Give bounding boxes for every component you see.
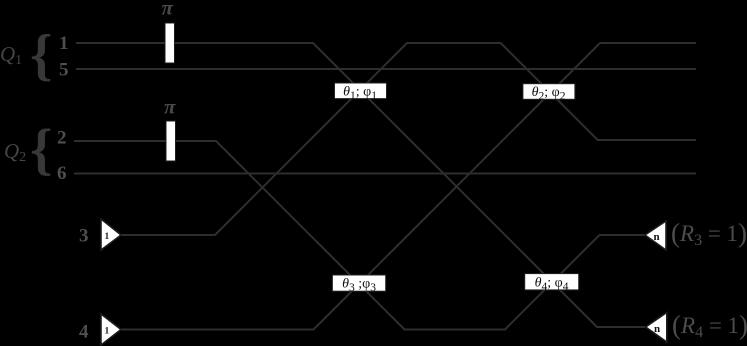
svg-text:{: { [30,24,52,87]
detector D4 (R4) [646,313,667,343]
svg-text:π: π [164,95,176,119]
svg-text:3: 3 [79,226,89,247]
photon source S4 on mode 4 [101,314,121,345]
beam splitter U4 (theta4; phi4) [525,274,579,293]
detector D3 (R3) [645,221,666,250]
wire mode 4 (source -> BS3 -> BS2 -> top right rail) [121,43,696,330]
phase shifter PS2 (pi) on mode 2 [164,95,176,162]
wire mode 2 (rail 2 -> BS3 -> BS4 -> detector R3) [74,141,645,330]
svg-text:1: 1 [59,33,69,54]
svg-text:1: 1 [105,327,110,337]
wire mode 1 (rail 1 -> BS1 -> BS4 -> detector R4) [76,43,645,327]
svg-text:π: π [162,0,174,20]
wire mode 5 [76,68,696,70]
svg-text:n: n [654,231,660,243]
wire mode 3 (source -> BS1 -> BS2 -> right rail) [121,43,696,235]
svg-text:1: 1 [105,232,110,242]
svg-text:n: n [654,323,660,335]
svg-text:2: 2 [57,128,67,149]
svg-text:5: 5 [59,60,69,81]
svg-text:6: 6 [57,163,67,184]
beam splitter U2 (theta2; phi2) [523,84,575,103]
svg-text:(R3 = 1): (R3 = 1) [671,218,747,249]
wire mode 6 [74,173,696,175]
svg-text:4: 4 [79,322,89,343]
photon source S3 on mode 3 [101,219,121,250]
phase shifter PS1 (pi) on mode 1 [162,0,175,63]
svg-text:(R4 = 1): (R4 = 1) [672,310,747,341]
beam splitter U3 (theta3 ; phi3) [332,275,385,294]
beam splitter U1 (theta1; phi1) [335,83,387,102]
svg-text:{: { [30,119,52,182]
